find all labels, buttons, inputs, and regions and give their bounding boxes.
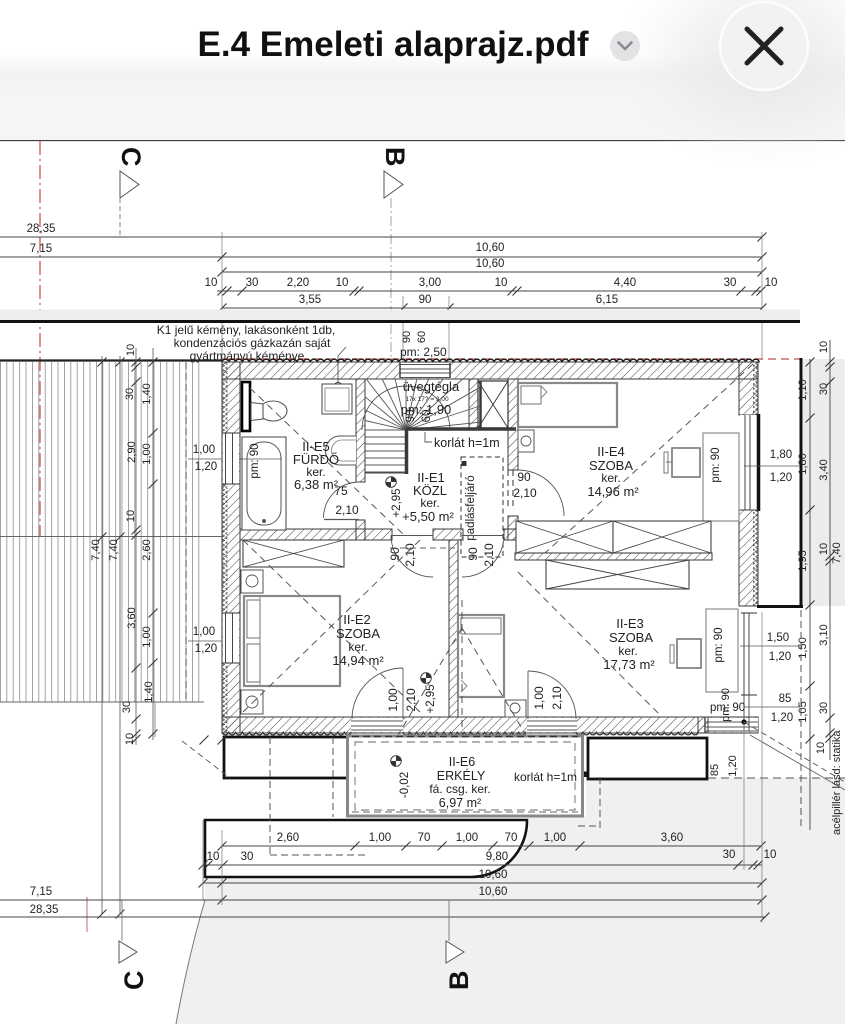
corner window bottom right bbox=[706, 718, 758, 732]
nightstand II-E2 bottom bbox=[241, 690, 263, 714]
svg-text:90: 90 bbox=[401, 331, 413, 343]
nightstand II-E4 bbox=[518, 430, 534, 452]
left pier bbox=[224, 737, 349, 778]
desk II-E3 bbox=[677, 639, 701, 668]
halo behind close button bbox=[614, 0, 845, 170]
railing post balcony right bbox=[582, 772, 588, 778]
svg-text:30: 30 bbox=[241, 851, 254, 863]
balcony door arc right bbox=[528, 671, 576, 719]
svg-text:2,90: 2,90 bbox=[126, 441, 138, 462]
site boundary curve bbox=[176, 900, 205, 1024]
svg-text:2,10: 2,10 bbox=[482, 543, 496, 567]
left exterior wall bbox=[222, 362, 240, 733]
right dim vertical lines bbox=[809, 359, 811, 830]
svg-text:10,60: 10,60 bbox=[476, 242, 505, 254]
svg-text:28,35: 28,35 bbox=[27, 223, 56, 235]
south wall right segment bbox=[504, 529, 518, 540]
south wall of bathroom left part bbox=[240, 529, 392, 540]
dim line 3,55 / 90 / 6,15 bbox=[222, 307, 762, 309]
svg-text:1,40: 1,40 bbox=[141, 383, 153, 404]
svg-text:B: B bbox=[444, 971, 474, 991]
svg-text:2,10: 2,10 bbox=[335, 503, 359, 517]
bed II-E2 bbox=[244, 596, 340, 686]
II-E3 window right 1,50 bbox=[741, 613, 757, 695]
svg-text:II-E6: II-E6 bbox=[449, 755, 475, 769]
svg-text:90: 90 bbox=[388, 547, 402, 561]
stair outline bbox=[365, 472, 406, 474]
svg-text:1,80: 1,80 bbox=[797, 453, 809, 474]
red roof-edge dashed line along top wall bbox=[222, 358, 805, 360]
svg-text:C: C bbox=[119, 971, 149, 991]
bathroom door arc bbox=[323, 482, 359, 518]
shaft left cheek bbox=[469, 379, 478, 430]
svg-text:-0,02: -0,02 bbox=[399, 772, 411, 798]
svg-text:2,60: 2,60 bbox=[141, 539, 153, 560]
staircase bbox=[362, 379, 480, 472]
svg-text:3,60: 3,60 bbox=[661, 832, 683, 844]
svg-text:1,00: 1,00 bbox=[456, 832, 478, 844]
zigzag insulation left wall bbox=[223, 362, 228, 733]
zigzag insulation right wall bbox=[753, 362, 758, 415]
svg-text:1,80: 1,80 bbox=[770, 449, 792, 461]
header background bbox=[0, 0, 845, 96]
svg-text:1,20: 1,20 bbox=[769, 651, 791, 663]
svg-text:1,20: 1,20 bbox=[195, 461, 217, 473]
svg-text:6,97 m²: 6,97 m² bbox=[439, 796, 481, 810]
svg-text:SZOBA: SZOBA bbox=[336, 626, 380, 641]
washbasin right oval bbox=[326, 436, 357, 465]
svg-text:10: 10 bbox=[495, 277, 508, 289]
svg-text:60: 60 bbox=[416, 331, 428, 343]
svg-text:+2,95: +2,95 bbox=[391, 488, 403, 517]
svg-text:14,94 m²: 14,94 m² bbox=[332, 653, 384, 668]
svg-text:SZOBA: SZOBA bbox=[609, 630, 653, 645]
right pier bbox=[588, 738, 707, 779]
uvegtegla window opening in top wall bbox=[400, 363, 450, 378]
svg-text:2,20: 2,20 bbox=[287, 277, 309, 289]
window sill box II-E3 bbox=[706, 609, 738, 692]
svg-text:1,00: 1,00 bbox=[193, 444, 215, 456]
nightstand II-E2 top bbox=[241, 570, 263, 593]
svg-text:2,10: 2,10 bbox=[513, 486, 537, 500]
svg-text:1,00: 1,00 bbox=[532, 686, 546, 710]
bottom dim line 1 segments bbox=[222, 845, 762, 847]
svg-text:2,10: 2,10 bbox=[403, 543, 417, 567]
left vertical dim lines bbox=[101, 356, 103, 914]
nightstand II-E3 bbox=[505, 700, 526, 717]
svg-text:10: 10 bbox=[764, 849, 777, 861]
stripe band bottom edge bbox=[0, 701, 204, 703]
svg-text:1,20: 1,20 bbox=[770, 472, 792, 484]
insulation scallops top wall bbox=[222, 359, 759, 362]
svg-text:1,00: 1,00 bbox=[141, 626, 153, 647]
grey region bottom right of site curve bbox=[176, 778, 845, 1024]
bottom dim line 10,60 a bbox=[203, 882, 762, 884]
balcony door opening left bbox=[351, 718, 403, 732]
window sill box II-E4 bbox=[703, 433, 739, 521]
svg-text:7,40: 7,40 bbox=[831, 542, 843, 563]
desk II-E4 bbox=[672, 448, 700, 477]
svg-text:7,40: 7,40 bbox=[90, 539, 102, 560]
bathroom east wall upper bbox=[356, 379, 365, 482]
svg-text:70: 70 bbox=[418, 832, 431, 844]
svg-text:korlát h=1m: korlát h=1m bbox=[514, 770, 577, 784]
door arc to II-E2 bbox=[391, 535, 433, 577]
dim line 7,15 top bbox=[0, 256, 762, 258]
grey margin right of building bbox=[803, 359, 845, 606]
svg-text:1,00: 1,00 bbox=[386, 688, 400, 712]
svg-text:1,20: 1,20 bbox=[195, 643, 217, 655]
wall II-E4 / II-E3 bbox=[515, 553, 712, 560]
bed II-E4 bbox=[518, 383, 617, 427]
window 1,80 right wall bbox=[740, 415, 757, 510]
wall stub below door II-E4 bbox=[508, 516, 518, 540]
svg-text:II-E3: II-E3 bbox=[616, 616, 643, 631]
svg-text:1,40: 1,40 bbox=[143, 681, 155, 702]
bathtub bbox=[242, 437, 286, 530]
svg-text:pm: 90: pm: 90 bbox=[720, 688, 732, 722]
svg-text:10,60: 10,60 bbox=[479, 886, 508, 898]
level symbol hall bbox=[386, 477, 397, 488]
svg-text:90: 90 bbox=[466, 547, 480, 561]
leader to flue bbox=[338, 347, 346, 384]
svg-text:3,60: 3,60 bbox=[126, 607, 138, 628]
right exterior wall upper bbox=[739, 362, 758, 415]
dim line 10,60 bbox=[222, 271, 762, 273]
svg-text:85: 85 bbox=[709, 764, 721, 776]
svg-text:1,10: 1,10 bbox=[797, 379, 809, 400]
svg-text:pm: 90: pm: 90 bbox=[710, 447, 722, 482]
svg-text:1,50: 1,50 bbox=[767, 632, 789, 644]
shower glass black bar bbox=[242, 382, 250, 431]
thick separator line above plan bbox=[0, 320, 800, 323]
terrace outline below (thick, rounded corner) bbox=[205, 820, 527, 877]
thick line at wall end y606 bbox=[757, 605, 803, 608]
svg-text:7,15: 7,15 bbox=[30, 886, 52, 898]
svg-text:90: 90 bbox=[517, 470, 531, 484]
dashed vertical right bbox=[800, 610, 802, 829]
roof dashed X II-E2 bbox=[243, 540, 420, 712]
svg-text:pm: 90: pm: 90 bbox=[249, 443, 261, 478]
svg-text:II-E4: II-E4 bbox=[597, 444, 624, 459]
insulation scallops bottom wall bbox=[222, 732, 698, 735]
dashed line SE of terrace bbox=[708, 777, 845, 779]
corner glass SE bbox=[743, 695, 745, 731]
svg-text:30: 30 bbox=[124, 388, 136, 400]
padlasfeljaro dashed box bbox=[461, 457, 503, 557]
door arc to II-E3 bbox=[462, 535, 504, 577]
window dim leader bbox=[744, 465, 800, 467]
svg-text:pm: 2,50: pm: 2,50 bbox=[400, 345, 447, 359]
svg-text:3,00: 3,00 bbox=[419, 277, 441, 289]
svg-text:6,38 m²: 6,38 m² bbox=[294, 477, 339, 492]
svg-text:10: 10 bbox=[207, 851, 220, 863]
svg-text:E.4 Emeleti alaprajz.pdf: E.4 Emeleti alaprajz.pdf bbox=[198, 25, 589, 64]
svg-text:10: 10 bbox=[818, 341, 830, 353]
svg-text:3,10: 3,10 bbox=[818, 624, 830, 645]
wall end cap SE bbox=[698, 717, 708, 733]
svg-text:3,40: 3,40 bbox=[818, 459, 830, 480]
bottom dim line 2 bbox=[203, 864, 762, 866]
wardrobe II-E4 bbox=[516, 521, 613, 553]
svg-text:7,15: 7,15 bbox=[30, 243, 52, 255]
svg-text:28,35: 28,35 bbox=[30, 904, 59, 916]
red tick bottom left bbox=[86, 897, 88, 932]
balcony door opening right bbox=[527, 718, 577, 732]
striped lower-roof band left bbox=[0, 362, 204, 702]
roof overhang dashed left bbox=[269, 737, 271, 855]
balcony roof overhang dashed bbox=[599, 777, 601, 829]
svg-text:90: 90 bbox=[419, 294, 432, 306]
small dashed diagonal at left pier bbox=[182, 741, 230, 778]
dim line segments top bbox=[217, 290, 762, 292]
window openings left wall bbox=[223, 433, 239, 484]
svg-text:10: 10 bbox=[125, 510, 137, 522]
svg-text:+2,95: +2,95 bbox=[425, 684, 437, 713]
svg-text:10: 10 bbox=[765, 277, 778, 289]
balcony body bbox=[348, 736, 583, 816]
red property line left bbox=[39, 141, 41, 537]
svg-text:ker.: ker. bbox=[601, 471, 620, 485]
svg-text:10: 10 bbox=[205, 277, 218, 289]
grey band above thick line bbox=[0, 310, 800, 321]
dashed line in stripe band bbox=[185, 362, 187, 702]
svg-text:1,00: 1,00 bbox=[193, 626, 215, 638]
svg-text:üvegtégla: üvegtégla bbox=[403, 379, 460, 394]
roof dashed diagonal II-E4 bbox=[545, 364, 753, 553]
svg-text:2,60: 2,60 bbox=[277, 832, 299, 844]
svg-text:K1 jelű kémény, lakásonként 1d: K1 jelű kémény, lakásonként 1db, bbox=[157, 323, 336, 337]
bathroom east wall stub bbox=[356, 520, 365, 540]
section marker B bottom bbox=[448, 900, 450, 941]
wall II-E2 / corridor bbox=[449, 540, 458, 717]
door II-E4 arc bbox=[518, 470, 564, 516]
svg-text:kondenzációs gázkazán saját: kondenzációs gázkazán saját bbox=[174, 336, 331, 350]
svg-text:1,00: 1,00 bbox=[369, 832, 391, 844]
svg-text:+5,50 m²: +5,50 m² bbox=[402, 509, 454, 524]
svg-text:1,00: 1,00 bbox=[141, 443, 153, 464]
svg-text:1,05: 1,05 bbox=[797, 701, 809, 722]
close button bbox=[720, 2, 808, 90]
svg-text:1,20: 1,20 bbox=[771, 712, 793, 724]
svg-text:ERKÉLY: ERKÉLY bbox=[437, 768, 486, 783]
roof dashes corridor bbox=[390, 547, 455, 549]
svg-text:30: 30 bbox=[121, 701, 133, 713]
chimney flue symbol bbox=[334, 383, 343, 392]
wardrobe II-E2 bbox=[243, 540, 344, 567]
attic dashed triangle bbox=[352, 628, 462, 812]
bottom dim line 10,60 b bbox=[0, 899, 762, 901]
svg-text:3,55: 3,55 bbox=[299, 294, 321, 306]
svg-text:fá. csg. ker.: fá. csg. ker. bbox=[429, 782, 490, 796]
railing around stairwell bbox=[406, 427, 516, 431]
svg-text:B: B bbox=[380, 147, 410, 167]
section marker C bottom bbox=[121, 900, 123, 941]
washbasin top bbox=[322, 384, 352, 414]
wall stairs / II-E4 bbox=[508, 379, 518, 470]
svg-text:14,96 m²: 14,96 m² bbox=[587, 484, 639, 499]
svg-text:2,10: 2,10 bbox=[550, 686, 564, 710]
svg-text:padlásfeljáró: padlásfeljáró bbox=[465, 475, 477, 540]
svg-text:ker.: ker. bbox=[420, 496, 439, 510]
svg-text:II-E2: II-E2 bbox=[343, 612, 370, 627]
extension verticals bottom bbox=[202, 820, 204, 901]
svg-text:10: 10 bbox=[815, 742, 827, 754]
svg-text:7,40: 7,40 bbox=[108, 539, 120, 560]
toilet bbox=[259, 401, 287, 421]
bottom line 28,35 bbox=[0, 916, 765, 918]
svg-text:30: 30 bbox=[246, 277, 259, 289]
svg-text:90: 90 bbox=[405, 410, 417, 423]
south wall between doors bbox=[433, 529, 463, 540]
bed II-E3 bbox=[458, 615, 504, 697]
svg-text:6,15: 6,15 bbox=[596, 294, 618, 306]
dim line 28,35 top bbox=[0, 236, 762, 238]
balcony door arc left bbox=[352, 668, 403, 719]
svg-text:30: 30 bbox=[723, 849, 736, 861]
svg-text:2,10: 2,10 bbox=[404, 688, 418, 712]
svg-text:10,60: 10,60 bbox=[476, 258, 505, 270]
svg-text:10: 10 bbox=[124, 733, 136, 745]
level symbol corridor bbox=[421, 673, 432, 684]
svg-text:30: 30 bbox=[818, 383, 830, 395]
svg-text:10: 10 bbox=[818, 543, 830, 555]
svg-text:30: 30 bbox=[818, 702, 830, 714]
svg-text:10: 10 bbox=[336, 277, 349, 289]
svg-text:1,95: 1,95 bbox=[797, 550, 809, 571]
svg-text:C: C bbox=[116, 147, 146, 167]
svg-text:17,73 m²: 17,73 m² bbox=[603, 657, 655, 672]
svg-text:pm: 90: pm: 90 bbox=[713, 627, 725, 662]
chevron button bbox=[610, 31, 640, 61]
roof dashed diagonal bathroom bbox=[250, 388, 404, 535]
terrace mid line bbox=[0, 536, 222, 538]
svg-text:4,40: 4,40 bbox=[614, 277, 636, 289]
level symbol balcony bbox=[391, 756, 402, 767]
roof dashed diagonal II-E3 bbox=[518, 572, 662, 717]
svg-text:1,20: 1,20 bbox=[727, 755, 739, 776]
stripe band top edge bbox=[0, 359, 222, 361]
svg-text:korlát h=1m: korlát h=1m bbox=[434, 436, 500, 450]
svg-text:10,60: 10,60 bbox=[479, 869, 508, 881]
bottom exterior wall bbox=[222, 717, 758, 733]
right exterior wall below window bbox=[739, 510, 758, 606]
svg-text:acélpillér lásd: statika: acélpillér lásd: statika bbox=[831, 730, 843, 835]
svg-text:1,00: 1,00 bbox=[544, 832, 566, 844]
svg-text:10: 10 bbox=[125, 344, 137, 356]
svg-text:1,50: 1,50 bbox=[797, 637, 809, 658]
wardrobe II-E3 bbox=[546, 560, 689, 589]
window outer thick line bbox=[757, 414, 761, 511]
heavy boundary line x801 bbox=[800, 358, 803, 607]
svg-text:60: 60 bbox=[421, 410, 433, 423]
svg-text:ker.: ker. bbox=[618, 644, 637, 658]
svg-text:9,80: 9,80 bbox=[486, 851, 508, 863]
svg-text:85: 85 bbox=[779, 693, 792, 705]
section line B bbox=[390, 198, 392, 360]
svg-text:75: 75 bbox=[334, 484, 348, 498]
dashed guides right of box bbox=[507, 470, 509, 510]
svg-text:70: 70 bbox=[505, 832, 518, 844]
top border line of sheet bbox=[0, 140, 845, 142]
top exterior wall bbox=[222, 362, 758, 379]
svg-text:30: 30 bbox=[724, 277, 737, 289]
extension lines top bbox=[221, 232, 223, 362]
